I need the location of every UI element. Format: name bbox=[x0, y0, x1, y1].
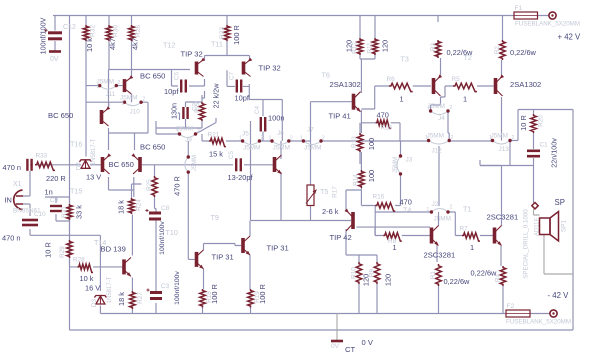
svg-text:J5MM: J5MM bbox=[304, 145, 321, 152]
svg-text:C4: C4 bbox=[254, 105, 261, 114]
svg-text:120: 120 bbox=[345, 40, 354, 52]
wire R6 net bbox=[361, 86, 431, 109]
svg-text:J5MM: J5MM bbox=[491, 133, 508, 140]
svg-text:1: 1 bbox=[400, 95, 404, 104]
resistor R11 120 bbox=[372, 38, 378, 55]
svg-text:C3: C3 bbox=[161, 283, 170, 290]
svg-text:C8: C8 bbox=[161, 205, 170, 212]
jumper J2 bbox=[431, 209, 448, 213]
svg-text:13-20pf: 13-20pf bbox=[228, 173, 254, 182]
svg-text:R29: R29 bbox=[59, 246, 66, 258]
svg-text:TIP 42: TIP 42 bbox=[330, 233, 352, 242]
diode D zener 13V bbox=[80, 160, 92, 169]
wire TIP32#2 collector row bbox=[249, 100, 282, 142]
transistor T3 2SA1302 bbox=[434, 74, 443, 96]
svg-text:- 42 V: - 42 V bbox=[548, 291, 570, 300]
svg-text:2: 2 bbox=[197, 129, 200, 135]
svg-text:1: 1 bbox=[122, 101, 125, 107]
wire fb to base/D3 bbox=[99, 235, 101, 313]
svg-text:J13: J13 bbox=[499, 146, 510, 153]
wire trimmer column bbox=[310, 141, 312, 220]
wire CT drop bbox=[336, 314, 338, 342]
capacitor C8 100nf bbox=[149, 213, 161, 219]
svg-text:R10: R10 bbox=[351, 267, 358, 279]
svg-text:33 k: 33 k bbox=[75, 205, 84, 219]
svg-text:4k7: 4k7 bbox=[108, 38, 117, 50]
svg-text:1: 1 bbox=[97, 84, 100, 90]
wire R5 net bbox=[441, 86, 494, 97]
resistor R15 470 bbox=[376, 120, 391, 128]
wire tail current node bbox=[86, 102, 125, 106]
jumper J6 bbox=[272, 141, 289, 145]
svg-text:1: 1 bbox=[425, 135, 428, 141]
resistor R21 15k bbox=[209, 138, 226, 146]
wire TIP31 base row bbox=[187, 189, 189, 191]
wire R21 to J5 bbox=[202, 134, 243, 141]
ground CT bbox=[331, 340, 343, 343]
svg-text:CT: CT bbox=[345, 345, 355, 354]
svg-text:10 k: 10 k bbox=[80, 274, 94, 283]
speaker SP1 bbox=[540, 218, 551, 235]
transistor TIP42 T? bbox=[345, 209, 354, 231]
wire T3 collector bbox=[438, 16, 441, 78]
svg-text:470 n: 470 n bbox=[3, 163, 22, 172]
svg-text:1: 1 bbox=[489, 135, 492, 141]
svg-text:R28: R28 bbox=[73, 257, 85, 264]
svg-text:F1: F1 bbox=[515, 5, 523, 12]
trimmer R17 2-6k bbox=[307, 185, 314, 206]
resistor R32 bbox=[83, 25, 89, 41]
wire TIP32 emitter rail bbox=[205, 56, 250, 61]
wire R7 row bbox=[455, 235, 493, 237]
svg-text:R2: R2 bbox=[494, 45, 501, 54]
wire left border bus bbox=[69, 16, 71, 331]
svg-text:2SC3281: 2SC3281 bbox=[424, 251, 456, 260]
svg-text:R30: R30 bbox=[113, 25, 120, 37]
transistor BC650 T13 bbox=[125, 75, 134, 94]
resistor R12 120 bbox=[357, 38, 363, 55]
wire R12R11 join bbox=[360, 16, 375, 92]
svg-text:1: 1 bbox=[470, 243, 474, 252]
capacitor C1 22n bbox=[527, 151, 540, 156]
svg-text:10pf: 10pf bbox=[164, 87, 179, 96]
svg-text:100 R: 100 R bbox=[210, 284, 219, 304]
svg-text:SP1: SP1 bbox=[561, 219, 568, 232]
wire R30 column bbox=[108, 16, 111, 70]
wire T4 collector bbox=[280, 141, 282, 220]
svg-text:1: 1 bbox=[463, 95, 467, 104]
svg-text:R15: R15 bbox=[381, 125, 393, 132]
svg-text:J5MM: J5MM bbox=[192, 155, 198, 171]
capacitor C6 10pf bbox=[181, 80, 186, 93]
svg-text:BC 650: BC 650 bbox=[109, 160, 134, 169]
svg-text:R24: R24 bbox=[136, 199, 143, 211]
capacitor C3 100nf bbox=[150, 293, 162, 299]
svg-text:R33: R33 bbox=[36, 153, 48, 160]
resistor R2 0.22 bbox=[500, 40, 506, 60]
resistor R9 120 bbox=[374, 262, 380, 284]
wire 1n row bbox=[45, 197, 70, 221]
svg-text:1: 1 bbox=[269, 136, 272, 142]
wire J11 net bbox=[86, 85, 123, 87]
jumper J10 bbox=[125, 102, 142, 106]
svg-text:TIP 31: TIP 31 bbox=[212, 253, 234, 262]
svg-text:2-6 k: 2-6 k bbox=[322, 207, 339, 216]
svg-text:100nf/100v: 100nf/100v bbox=[159, 221, 166, 255]
wire input bottom bbox=[23, 204, 30, 235]
svg-text:13 V: 13 V bbox=[86, 173, 101, 182]
jumper J4 bbox=[431, 111, 448, 115]
wire J8 column bbox=[188, 141, 194, 259]
wire J10 right to diff emitters bbox=[109, 102, 149, 150]
transistor BC650 diff left bbox=[103, 153, 112, 174]
svg-text:T6: T6 bbox=[322, 71, 330, 80]
wire output to C1 bottom bbox=[480, 160, 534, 166]
svg-text:J5MM: J5MM bbox=[273, 145, 290, 152]
wire -42V rail bbox=[100, 313, 550, 315]
svg-text:0V: 0V bbox=[331, 343, 340, 350]
wire diff right base bbox=[142, 165, 233, 176]
svg-text:10pf: 10pf bbox=[235, 94, 250, 103]
wire R22/C2 bottoms bbox=[156, 119, 202, 128]
resistor R14 100 bbox=[359, 170, 365, 188]
wire BC650 upper base line bbox=[109, 70, 191, 134]
wire R26 column bbox=[131, 16, 133, 79]
capacitor C2 130n bbox=[183, 107, 187, 119]
wire 130n left bbox=[178, 113, 180, 120]
resistor R4 0.22 bbox=[500, 266, 506, 286]
svg-text:J5MM: J5MM bbox=[434, 216, 451, 223]
svg-text:15 k: 15 k bbox=[209, 150, 223, 159]
svg-text:1N5817-T: 1N5817-T bbox=[107, 276, 113, 303]
resistor R24 18k bbox=[129, 198, 135, 214]
svg-text:100 R: 100 R bbox=[258, 284, 267, 304]
svg-text:IN: IN bbox=[5, 196, 12, 205]
svg-text:F2: F2 bbox=[507, 303, 515, 310]
svg-text:T11: T11 bbox=[211, 40, 223, 49]
fuse F2 bbox=[506, 310, 530, 317]
wire mid column bbox=[250, 121, 252, 220]
svg-text:2: 2 bbox=[512, 135, 515, 141]
svg-text:2: 2 bbox=[261, 136, 264, 142]
wire R10R9 bottoms bbox=[359, 284, 377, 314]
svg-text:4k7: 4k7 bbox=[131, 38, 140, 50]
wire feedback line bbox=[30, 234, 100, 236]
transistor TIP31 #1 bbox=[197, 250, 204, 269]
wire C7 branch bbox=[227, 70, 249, 99]
resistor R3 0.22 bbox=[435, 40, 441, 58]
svg-text:2: 2 bbox=[450, 105, 453, 111]
svg-text:T1: T1 bbox=[463, 205, 471, 214]
transistor BC650 T16 bbox=[102, 106, 111, 126]
svg-text:R25: R25 bbox=[146, 179, 153, 191]
wire J3 top bbox=[400, 141, 402, 156]
svg-text:TIP 31: TIP 31 bbox=[267, 244, 289, 253]
svg-text:R32: R32 bbox=[90, 25, 97, 37]
capacitor C7 10pf bbox=[237, 80, 241, 93]
jumper J13 bbox=[493, 141, 511, 145]
wire row212 bbox=[375, 146, 455, 236]
svg-text:BC 650: BC 650 bbox=[140, 72, 165, 81]
svg-text:R27: R27 bbox=[137, 292, 144, 304]
wire bottom border bbox=[70, 329, 574, 331]
wire speaker wires bbox=[534, 209, 574, 274]
svg-text:T12: T12 bbox=[163, 41, 175, 50]
resistor R5 1R bbox=[453, 83, 477, 91]
wire C12 leads bbox=[54, 16, 56, 51]
svg-text:470: 470 bbox=[377, 111, 389, 120]
resistor R18 100R bbox=[200, 289, 206, 307]
wire R27 bottom bbox=[131, 309, 133, 314]
svg-text:18 k: 18 k bbox=[117, 200, 126, 214]
svg-text:R23: R23 bbox=[219, 27, 226, 39]
jumper J11 bbox=[100, 86, 117, 90]
svg-text:C12: C12 bbox=[63, 24, 76, 31]
resistor R8 1R bbox=[383, 233, 402, 241]
svg-text:SP: SP bbox=[555, 198, 565, 207]
svg-text:1n: 1n bbox=[45, 188, 53, 197]
svg-text:1N5817-T: 1N5817-T bbox=[91, 138, 97, 165]
svg-text:1: 1 bbox=[300, 136, 303, 142]
wire diff collectors bbox=[109, 177, 134, 197]
wire R14 bottom TIP42 bbox=[346, 188, 377, 262]
jumper J3 vertical bbox=[397, 156, 401, 174]
svg-text:2SA1302: 2SA1302 bbox=[330, 80, 361, 89]
svg-text:R11: R11 bbox=[367, 42, 374, 54]
resistor R23 bbox=[224, 25, 230, 41]
svg-text:2SC3281: 2SC3281 bbox=[487, 213, 519, 222]
svg-text:J5MM: J5MM bbox=[427, 133, 444, 140]
wire TIP42 emitter row bbox=[357, 226, 431, 228]
svg-text:470 R: 470 R bbox=[173, 176, 182, 196]
transistor BC650 diff right bbox=[131, 153, 140, 174]
svg-text:1: 1 bbox=[427, 106, 430, 112]
svg-text:R14: R14 bbox=[353, 174, 360, 186]
svg-text:J5: J5 bbox=[242, 131, 249, 138]
wire zobel top bbox=[510, 110, 573, 141]
wire BD139 vert bbox=[131, 215, 133, 292]
svg-text:R16: R16 bbox=[373, 194, 385, 201]
wire R22/C2 tops bbox=[186, 91, 205, 107]
svg-text:1: 1 bbox=[177, 129, 180, 135]
svg-text:1: 1 bbox=[239, 136, 242, 142]
jumper J7 bbox=[303, 141, 321, 145]
svg-text:0,22/6w: 0,22/6w bbox=[510, 48, 537, 57]
svg-text:TIP 32: TIP 32 bbox=[181, 50, 203, 59]
svg-text:0,22/6w: 0,22/6w bbox=[471, 269, 498, 278]
jumper J8 bbox=[185, 157, 189, 172]
svg-text:18 k: 18 k bbox=[117, 292, 126, 306]
resistor R13 100 bbox=[357, 133, 363, 152]
resistor R6 1R bbox=[389, 83, 413, 91]
svg-text:R6: R6 bbox=[387, 76, 396, 83]
svg-text:J7: J7 bbox=[307, 127, 314, 134]
capacitor C input top 470n bbox=[27, 159, 31, 171]
wire R8 row bbox=[375, 227, 430, 235]
svg-text:R9: R9 bbox=[369, 268, 376, 277]
transistor T2 2SA1302 bbox=[496, 74, 505, 96]
capacitor C5 13-20pf bbox=[236, 158, 241, 171]
resistor R26 bbox=[129, 25, 135, 41]
transistor T8 2SC3281 bbox=[432, 226, 439, 246]
svg-text:J3: J3 bbox=[406, 157, 413, 164]
jumper J9 bbox=[180, 134, 196, 138]
svg-text:2SA1302: 2SA1302 bbox=[510, 80, 541, 89]
svg-text:100nf/100v: 100nf/100v bbox=[174, 271, 181, 305]
svg-text:+ 42 V: + 42 V bbox=[558, 33, 582, 42]
svg-text:2: 2 bbox=[322, 136, 325, 142]
svg-text:J5MM: J5MM bbox=[428, 103, 445, 110]
svg-text:D3: D3 bbox=[91, 298, 98, 307]
resistor R19 100R bbox=[248, 289, 254, 307]
svg-text:C2: C2 bbox=[192, 102, 199, 111]
resistor R28 10k bbox=[78, 264, 94, 272]
svg-text:1: 1 bbox=[427, 207, 430, 213]
wire J9 net bbox=[156, 118, 216, 134]
wire C3 col bbox=[155, 288, 157, 291]
svg-text:J6: J6 bbox=[277, 130, 284, 137]
svg-text:R17: R17 bbox=[332, 186, 339, 198]
ground 0V at C12 bbox=[49, 50, 61, 53]
wire T6 collector/emitter bbox=[360, 91, 362, 170]
svg-text:C10: C10 bbox=[34, 211, 46, 218]
wire +42V top rail bbox=[53, 15, 550, 17]
wire T8 emitter bbox=[437, 245, 439, 314]
svg-text:R7: R7 bbox=[460, 226, 469, 233]
resistor R10 120 bbox=[356, 262, 362, 284]
resistor R31 33k bbox=[67, 204, 73, 220]
svg-text:T15: T15 bbox=[70, 187, 82, 196]
svg-text:BC 650: BC 650 bbox=[48, 111, 73, 120]
resistor R33 bbox=[35, 162, 55, 170]
svg-text:0,22/6w: 0,22/6w bbox=[444, 277, 471, 286]
svg-text:16 V: 16 V bbox=[85, 284, 100, 293]
wire input top bbox=[23, 165, 33, 196]
svg-text:AD11F: AD11F bbox=[535, 218, 541, 237]
svg-text:10 k: 10 k bbox=[85, 38, 94, 52]
svg-text:C6: C6 bbox=[174, 71, 181, 80]
capacitor C9 1n bbox=[50, 206, 62, 211]
svg-text:T3: T3 bbox=[401, 55, 409, 64]
svg-text:D4: D4 bbox=[76, 161, 83, 170]
transistor BD139 T14 bbox=[124, 257, 131, 276]
transistor TIP31 #2 bbox=[243, 236, 250, 255]
wire T1 collector bbox=[480, 166, 502, 227]
svg-text:T16: T16 bbox=[70, 140, 82, 149]
fuse F1 bbox=[514, 12, 538, 19]
svg-text:J4: J4 bbox=[438, 115, 445, 122]
wire zobel chain bbox=[533, 110, 535, 204]
transistor T1 2SC3281 bbox=[495, 226, 502, 246]
wire y220 row bbox=[251, 220, 352, 222]
svg-text:J10: J10 bbox=[130, 109, 141, 116]
wire R32 column bbox=[85, 16, 87, 157]
resistor R25 470R bbox=[152, 176, 158, 197]
wire T2 collector bbox=[502, 16, 503, 78]
wire R31R29 taps bbox=[69, 197, 71, 267]
wire zener row bbox=[26, 164, 101, 166]
resistor R29 10R bbox=[67, 240, 73, 258]
svg-text:J5MM: J5MM bbox=[393, 157, 399, 173]
resistor R16 470 bbox=[375, 203, 395, 211]
resistor R20 10R bbox=[531, 114, 537, 133]
svg-text:FUSEBLANK_5X20MM: FUSEBLANK_5X20MM bbox=[506, 319, 571, 326]
svg-text:100: 100 bbox=[367, 170, 376, 182]
svg-text:T5: T5 bbox=[320, 187, 328, 196]
wire R15 row bbox=[361, 123, 400, 141]
wire T8 collector bbox=[438, 212, 440, 226]
transistor T4mid npn bbox=[275, 155, 282, 174]
wire T1 emitter bbox=[501, 245, 503, 314]
svg-text:120: 120 bbox=[381, 40, 390, 52]
svg-text:BC 650: BC 650 bbox=[140, 143, 165, 152]
svg-text:FUSEBLANK_5X20MM: FUSEBLANK_5X20MM bbox=[515, 21, 580, 28]
resistor R30 bbox=[106, 25, 112, 41]
jumper J5 bbox=[243, 141, 260, 145]
svg-text:T4: T4 bbox=[403, 206, 411, 215]
wire R13 leads bbox=[359, 123, 361, 164]
svg-text:J9: J9 bbox=[185, 137, 192, 144]
svg-text:2: 2 bbox=[118, 80, 121, 86]
wire T6 base bbox=[311, 102, 352, 141]
wire jumper row bbox=[259, 141, 510, 166]
svg-text:22n/100v: 22n/100v bbox=[550, 138, 559, 168]
wire C5 right to T4 base bbox=[244, 164, 273, 166]
svg-text:TIP 41: TIP 41 bbox=[329, 112, 351, 121]
svg-text:2: 2 bbox=[450, 205, 453, 211]
transistor T6 TIP41 bbox=[354, 92, 361, 112]
svg-text:J12: J12 bbox=[432, 148, 443, 155]
svg-text:X1: X1 bbox=[13, 181, 22, 188]
capacitor C12 bbox=[48, 33, 62, 39]
svg-text:J11: J11 bbox=[106, 91, 116, 98]
svg-text:T9: T9 bbox=[211, 213, 219, 222]
diode D3 zener 16V bbox=[94, 296, 106, 305]
transistor TIP32 #2 bbox=[244, 58, 253, 77]
svg-text:0,22/6w: 0,22/6w bbox=[447, 48, 474, 57]
svg-text:J5MM: J5MM bbox=[243, 145, 260, 152]
wire BD139 base row bbox=[70, 266, 123, 268]
svg-text:0V: 0V bbox=[50, 56, 59, 63]
wire J7 left bbox=[303, 140, 310, 142]
svg-text:T14: T14 bbox=[94, 238, 106, 247]
svg-text:0 V: 0 V bbox=[362, 338, 374, 347]
svg-text:C7: C7 bbox=[229, 71, 236, 80]
svg-text:10 R: 10 R bbox=[44, 242, 53, 258]
wire J4 to J12 bbox=[448, 111, 449, 141]
wire R25 bottom to C8 bbox=[155, 197, 157, 314]
svg-text:130n: 130n bbox=[170, 103, 179, 119]
svg-text:C9: C9 bbox=[50, 197, 59, 204]
wire right border bbox=[572, 110, 574, 331]
wire C6 branch bbox=[172, 70, 205, 87]
svg-text:J2: J2 bbox=[432, 201, 439, 208]
svg-text:100 R: 100 R bbox=[232, 25, 241, 45]
wire T3 emitter to J4 bbox=[431, 97, 441, 111]
transistor TIP32 #1 bbox=[197, 58, 206, 77]
svg-text:100nf/100V: 100nf/100V bbox=[39, 17, 48, 54]
svg-text:22 k/2w: 22 k/2w bbox=[212, 83, 221, 109]
svg-text:SPECIAL_DRILL_0.1000: SPECIAL_DRILL_0.1000 bbox=[523, 209, 530, 279]
wire C4 bottom bbox=[262, 132, 264, 142]
capacitor C10 470n bbox=[22, 220, 38, 225]
svg-text:470 n: 470 n bbox=[2, 234, 21, 243]
jumper J12 bbox=[429, 141, 450, 145]
svg-text:2: 2 bbox=[290, 136, 293, 142]
svg-text:2: 2 bbox=[143, 97, 146, 103]
wire TIP31s bbox=[203, 244, 236, 314]
svg-text:C1: C1 bbox=[540, 142, 549, 149]
